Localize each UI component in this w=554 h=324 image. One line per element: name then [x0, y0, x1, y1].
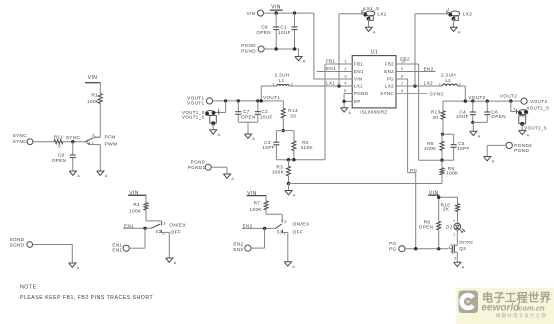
svg-text:3: 3 [163, 221, 165, 225]
svg-text:A: A [303, 60, 306, 64]
svg-text:EN2: EN2 [384, 69, 394, 74]
connector J-EN1 [112, 242, 129, 252]
wire R11 to S1 common [63, 141, 85, 143]
net label SYNC (U1) [430, 91, 445, 96]
switch S3 EN2 ON/OFF [275, 219, 286, 236]
net label VOUT1_S [182, 110, 205, 120]
svg-text:10PF: 10PF [262, 145, 275, 150]
wire R1 to PFM contact [95, 104, 100, 138]
net label EN2 (switch) [243, 223, 253, 228]
resistor R9 [419, 219, 441, 230]
svg-text:A: A [231, 177, 234, 181]
wire C4/C6 ground link [473, 122, 488, 131]
note text [20, 284, 153, 301]
svg-text:ISL8088IRZ: ISL8088IRZ [360, 110, 387, 115]
ground (VOUT2_S tp) [519, 130, 530, 137]
net label VOUT2_S (top) [527, 106, 550, 111]
net label FB1 [326, 59, 336, 64]
wire LX2 test point to ground [453, 19, 455, 28]
inductor L2 2.2UH [439, 73, 461, 87]
svg-text:7: 7 [401, 82, 403, 86]
net label VOUT2 (conn) [500, 93, 517, 98]
wire EP to ground [343, 101, 345, 107]
wire VOUT2_S tp to ground [521, 124, 523, 130]
wire VIN rail [264, 12, 314, 14]
node VOUT1-C2 [256, 99, 259, 102]
svg-text:A: A [174, 261, 177, 265]
wire C4 bottom [472, 115, 474, 123]
U1 pin numbers right [401, 60, 405, 94]
capacitor C8 [256, 24, 279, 35]
svg-text:1: 1 [453, 233, 455, 237]
ground (LX1 tp) [365, 27, 376, 34]
connector J-VIN [247, 10, 264, 16]
ground (C7/C2) [244, 134, 255, 141]
svg-text:1: 1 [448, 245, 450, 249]
resistor R10 [441, 202, 460, 211]
svg-text:100K: 100K [250, 207, 263, 212]
node FB2 divider mid [440, 159, 443, 162]
svg-text:VOUT1: VOUT1 [263, 95, 280, 100]
wire PFM contact [95, 136, 100, 138]
node VOUT2 tp tap [509, 99, 512, 102]
power flag VIN (rail) [270, 4, 283, 13]
connector J-SYNC [13, 133, 33, 145]
svg-text:A: A [458, 30, 461, 34]
svg-text:SYNC: SYNC [66, 135, 81, 140]
svg-text:EN2: EN2 [424, 66, 434, 71]
svg-text:A: A [373, 30, 376, 34]
svg-text:SYNC: SYNC [380, 91, 394, 96]
svg-text:EN1: EN1 [326, 66, 336, 71]
svg-text:SYNC: SYNC [13, 139, 28, 144]
test point LX2 [447, 8, 472, 21]
U1 pin numbers left [344, 60, 347, 94]
ground (C9) [69, 171, 80, 178]
svg-text:316K: 316K [301, 145, 314, 150]
connector J-PG [389, 241, 405, 252]
svg-text:L2: L2 [445, 78, 451, 83]
svg-text:做最好电子设计之源: 做最好电子设计之源 [496, 312, 547, 319]
resistor R3 [272, 160, 291, 176]
wire R3 to ground [288, 184, 290, 191]
svg-text:PGND: PGND [514, 148, 529, 153]
label PWM [105, 142, 118, 148]
resistor R2 [292, 131, 314, 151]
wire VOUT2 sense tap [511, 101, 517, 111]
label ON/EX [169, 222, 186, 228]
svg-text:R1: R1 [91, 93, 98, 98]
svg-text:VOUT2_S: VOUT2_S [524, 125, 547, 130]
svg-text:6: 6 [401, 89, 403, 93]
wire C6 top [486, 101, 488, 112]
svg-text:SGND: SGND [10, 242, 25, 247]
ground (R3) [285, 191, 296, 198]
wire C4 top [472, 101, 474, 112]
wire R6 bottom to FB link [441, 175, 443, 184]
svg-text:VOUT1: VOUT1 [187, 101, 204, 106]
capacitor C1 [278, 24, 298, 35]
ground (S2 OFF) [166, 258, 177, 265]
svg-text:VOUT2: VOUT2 [500, 93, 517, 98]
node LX1 junction [337, 84, 340, 87]
wire R14 to divider [282, 118, 284, 131]
wire L1 to LX1 pin [289, 85, 352, 87]
wire R3 bottom [288, 176, 290, 184]
wire Q2 source to ground [456, 254, 458, 262]
svg-text:VOUT1: VOUT1 [187, 95, 204, 100]
svg-text:A: A [77, 266, 80, 270]
wire L1 to VOUT1 rail [261, 86, 277, 101]
wire SYNC input [33, 141, 54, 143]
svg-text:100K: 100K [87, 99, 100, 104]
wire C5 bottom [442, 147, 454, 160]
node VIN-R9/R10 [437, 196, 440, 199]
capacitor C6 [484, 109, 506, 119]
wire R9 to PG rail [438, 230, 440, 249]
node PGND-C8 [275, 47, 278, 50]
svg-text:A: A [527, 134, 530, 138]
svg-text:VOUT1_S: VOUT1_S [182, 115, 205, 120]
svg-text:2: 2 [453, 219, 455, 223]
svg-text:3: 3 [454, 257, 456, 261]
capacitor C5 [451, 134, 470, 151]
svg-text:C9: C9 [58, 152, 65, 157]
wire C3 bottom [275, 145, 277, 160]
op-amp U1 ISL8088IRZ body [352, 50, 396, 115]
node LX2 junction [413, 84, 416, 87]
wire OFF contact to ground [161, 232, 169, 258]
svg-text:1: 1 [344, 60, 346, 64]
svg-text:PLEASE KEEP FB1, FB2 PINS TRAC: PLEASE KEEP FB1, FB2 PINS TRACES SHORT [20, 295, 153, 301]
wire S3 OFF to ground [283, 233, 288, 262]
power flag VIN (EN2) [247, 191, 267, 197]
wire PG net [396, 79, 416, 249]
svg-text:FB2: FB2 [400, 56, 410, 61]
wire C2 top [257, 101, 259, 112]
net label VOUT2_S (bottom) [524, 125, 547, 130]
label ON/EX (S3) [293, 222, 310, 228]
resistor R13 [431, 110, 445, 120]
wire VIN to R1 [99, 83, 101, 94]
node VOUT1-L1 [260, 99, 263, 102]
svg-text:A: A [478, 135, 481, 139]
test point VOUT1_S [205, 108, 219, 126]
wire EN2 stub [396, 71, 436, 73]
svg-text:A: A [462, 266, 465, 270]
svg-text:R11: R11 [54, 134, 63, 139]
wire VOUT2 rail [443, 100, 521, 102]
wire L2 to VOUT2 rail [458, 86, 466, 101]
svg-text:A: A [105, 174, 108, 178]
wire C1 bottom [294, 30, 296, 49]
label OFF (S3) [293, 229, 304, 235]
svg-text:3: 3 [92, 134, 94, 138]
svg-text:1: 1 [218, 108, 220, 112]
resistor R11 [54, 134, 63, 148]
wire C6 bottom [486, 115, 488, 123]
power flag VIN (PG pull-up) [428, 190, 439, 196]
svg-text:LX2: LX2 [385, 84, 394, 89]
wire C9 to ground [72, 158, 74, 171]
net label VOUT2 (rail) [468, 95, 485, 100]
node VOUT1-C7 [237, 99, 240, 102]
svg-text:OPEN: OPEN [241, 114, 256, 119]
inductor L1 2.2UH [272, 72, 292, 86]
svg-text:A: A [492, 160, 495, 164]
wire LX2 to L2 [396, 85, 442, 87]
wire FB1 riser [325, 64, 352, 160]
U1 pin names left [354, 62, 368, 104]
switch S1 PFM/PWM [85, 134, 95, 146]
wire C1 top [294, 13, 296, 27]
resistor R5 [424, 134, 444, 151]
svg-text:EN1: EN1 [124, 223, 134, 228]
svg-text:OPEN: OPEN [256, 30, 271, 35]
net label EN1 (U1) [326, 66, 336, 71]
svg-text:10UF: 10UF [278, 30, 291, 35]
svg-text:VOUT2_S: VOUT2_S [527, 106, 550, 111]
wire LX1 to test point [339, 14, 362, 86]
wire VIN to R9/R10 [439, 195, 458, 221]
node VOUT2-C4 [471, 99, 474, 102]
svg-text:SYNC: SYNC [13, 133, 28, 138]
node EN2 junction [263, 227, 266, 230]
svg-text:100K: 100K [446, 171, 459, 176]
net label PG (U1) [410, 168, 417, 173]
svg-text:A: A [293, 194, 296, 198]
svg-text:2.2UH: 2.2UH [274, 72, 289, 77]
svg-text:A: A [77, 174, 80, 178]
capacitor C7 [235, 109, 255, 119]
wire FB2 to divider [396, 64, 442, 160]
wire R10 to D2 [453, 212, 457, 224]
U1 pin names right [380, 62, 394, 97]
wire PGND1 to ground [211, 167, 227, 174]
resistor R6 [440, 160, 459, 175]
wire EN1 stub at U1 [317, 71, 353, 73]
svg-text:ON/EX: ON/EX [169, 222, 186, 228]
svg-text:EN2: EN2 [243, 223, 253, 228]
node FB1 divider top [282, 129, 285, 132]
svg-text:VIN: VIN [271, 4, 281, 10]
net label EN2 (U1) [424, 66, 434, 71]
svg-text:PGND: PGND [354, 91, 368, 96]
wire C7/C2 ground link [238, 122, 257, 134]
svg-text:OPEN: OPEN [491, 114, 506, 119]
node EN1 junction [143, 227, 146, 230]
capacitor C2 [255, 109, 273, 119]
connector J-PGND (input) [241, 43, 264, 53]
svg-text:LX1: LX1 [377, 11, 386, 16]
wire C3 top [275, 131, 277, 143]
ground (LX2 tp) [450, 27, 461, 34]
node R3 top [287, 158, 290, 161]
ground (S3 OFF) [284, 262, 295, 269]
svg-text:FB1: FB1 [354, 62, 363, 67]
svg-text:OPEN: OPEN [419, 224, 434, 229]
wire SGND to ground [33, 245, 73, 264]
svg-text:8: 8 [401, 75, 403, 79]
svg-text:200K: 200K [424, 146, 437, 151]
wire VOUT1_S tp to ground [212, 123, 214, 130]
svg-text:OFF: OFF [293, 229, 304, 235]
ground (PWM) [97, 171, 108, 178]
label PFM [105, 134, 116, 140]
wire divider top link (R5/C5) [443, 133, 454, 135]
transistor Q2 2N7002 [448, 239, 473, 260]
svg-text:C8: C8 [261, 24, 268, 29]
svg-text:PG: PG [387, 77, 394, 82]
capacitor C4 [456, 109, 476, 119]
svg-text:100K: 100K [129, 209, 142, 214]
net label EN1 (switch) [124, 223, 134, 228]
connector J-PGND2 [506, 142, 532, 153]
svg-text:20: 20 [432, 115, 438, 120]
wire R2 bottom [293, 151, 295, 160]
node VIN-C8 [275, 11, 278, 14]
connector J-VOUT1 [187, 95, 212, 105]
connector J-EN2 [233, 242, 251, 252]
svg-text:S3: S3 [277, 229, 283, 234]
svg-text:SYNC: SYNC [430, 91, 445, 96]
net label LX2 [424, 81, 433, 86]
svg-text:2K: 2K [443, 207, 450, 212]
wire LX2 to test point [415, 14, 447, 86]
svg-text:1: 1 [514, 107, 516, 111]
wire C8 bottom [275, 30, 277, 49]
wire J-EN2 to switch [251, 228, 265, 248]
resistor R14 [281, 108, 298, 118]
svg-text:S1: S1 [86, 140, 92, 145]
wire SYNC stub [396, 93, 427, 95]
svg-text:R7: R7 [254, 201, 261, 206]
U1 left pin stubs [344, 64, 352, 101]
wire C7 top [237, 101, 239, 112]
svg-text:2N7002: 2N7002 [459, 239, 474, 244]
node PGND-C1 [293, 47, 296, 50]
ground (Q2) [454, 262, 465, 269]
svg-text:4: 4 [344, 82, 346, 86]
svg-text:VIN: VIN [88, 75, 98, 81]
svg-text:A: A [349, 111, 352, 115]
wire VOUT2 to R13 [442, 101, 444, 111]
node SYNC junction [66, 135, 81, 143]
node R3 bottom junction [287, 182, 290, 185]
svg-text:VOUT2: VOUT2 [530, 99, 547, 104]
wire R4 to S2 contact 3 [146, 210, 162, 223]
net label FB2 [400, 56, 410, 61]
ground (VOUT1_S tp) [210, 130, 221, 137]
svg-text:PG: PG [389, 246, 396, 251]
svg-text:EN1: EN1 [112, 248, 122, 253]
svg-text:10UF: 10UF [456, 114, 469, 119]
svg-text:R13: R13 [431, 110, 441, 115]
watermark eeworld [456, 288, 554, 324]
svg-text:LX2: LX2 [424, 81, 433, 86]
svg-text:PG: PG [410, 168, 417, 173]
svg-text:A: A [252, 137, 255, 141]
node VOUT2-C6 [486, 99, 489, 102]
wire divider top link [276, 130, 294, 132]
wire VOUT1 sense tap [219, 101, 226, 113]
wire FB ground link (R3 to R6) [289, 183, 443, 185]
svg-text:.com.cn: .com.cn [516, 303, 545, 312]
svg-text:LX1: LX1 [354, 84, 363, 89]
svg-text:100K: 100K [272, 170, 285, 175]
svg-text:3: 3 [284, 220, 286, 224]
svg-text:LX1: LX1 [326, 81, 335, 86]
svg-text:FB2: FB2 [385, 62, 394, 67]
svg-text:2: 2 [344, 67, 346, 71]
svg-text:PWM: PWM [105, 142, 118, 148]
net label VOUT1 [263, 95, 280, 100]
wire VIN to R7 [265, 196, 267, 202]
node PGND-EP [342, 100, 345, 103]
svg-text:1: 1 [439, 83, 441, 87]
svg-text:EP: EP [354, 99, 361, 104]
svg-text:10PF: 10PF [457, 146, 470, 151]
connector J-SGND [10, 237, 33, 247]
svg-text:EN1: EN1 [354, 69, 364, 74]
switch S2 EN1 ON/OFF [151, 221, 165, 235]
svg-text:OFF: OFF [171, 230, 182, 236]
capacitor C3 [262, 140, 279, 150]
svg-text:D2: D2 [446, 224, 453, 229]
wire SYNC to C9 [72, 142, 74, 155]
wire VOUT1 rail [213, 100, 284, 102]
svg-text:A: A [292, 265, 295, 269]
wire PWM contact to ground [89, 145, 101, 171]
svg-text:VIN: VIN [247, 11, 256, 16]
resistor R4 [129, 202, 148, 214]
test point LX1 [362, 8, 387, 21]
ground (C4/C6) [470, 131, 481, 138]
node VOUT1 tp tap [224, 99, 227, 102]
svg-text:LX1_S: LX1_S [364, 6, 380, 11]
svg-text:eeworld: eeworld [482, 303, 521, 314]
svg-text:PGND: PGND [241, 48, 256, 53]
wire R7 to S3 contact 3 [266, 210, 282, 220]
wire PGND/EP tie [343, 94, 345, 102]
svg-text:C1: C1 [280, 24, 287, 29]
connector J-VOUT2 [521, 98, 547, 104]
svg-text:VIN: VIN [354, 77, 363, 82]
ground (U1 EP) [341, 108, 352, 115]
node PG-net [414, 247, 417, 250]
LED D2 [446, 223, 465, 232]
node R2 bottom [292, 158, 295, 161]
svg-text:ON/EX: ON/EX [293, 222, 310, 228]
node PG-R9 [437, 247, 440, 250]
wire R5 bottom [441, 151, 443, 161]
power flag VIN (PFM pull-up) [85, 75, 101, 83]
wire LX1 test point to ground [368, 19, 370, 28]
svg-text:FB1: FB1 [326, 59, 336, 64]
svg-text:10UF: 10UF [260, 114, 273, 119]
wire C7 bottom [237, 114, 239, 122]
svg-text:PFM: PFM [105, 134, 116, 140]
node FB2 divider top [441, 133, 444, 136]
wire EN1 net to S2 common [123, 227, 151, 229]
wire VIN to R4 [145, 195, 147, 202]
svg-text:0: 0 [58, 144, 61, 149]
connector J-PGND1 [188, 160, 212, 171]
ground (PGND1) [223, 174, 234, 181]
node C4 gnd junction [471, 121, 474, 124]
wire D2 to Q2 drain [453, 230, 457, 243]
ground (PGND2) [484, 157, 495, 164]
